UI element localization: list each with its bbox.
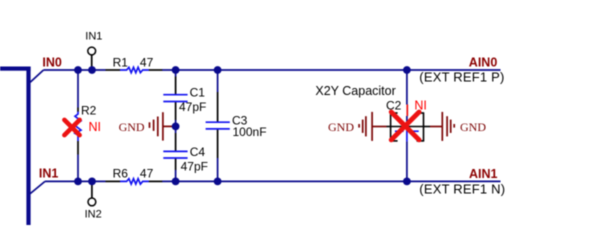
svg-text:GND: GND — [328, 120, 354, 134]
svg-text:GND: GND — [460, 120, 486, 134]
svg-text:IN1: IN1 — [39, 166, 59, 180]
svg-text:R1: R1 — [113, 55, 129, 69]
svg-text:47pF: 47pF — [179, 100, 206, 114]
svg-text:NI: NI — [414, 98, 427, 112]
svg-text:R6: R6 — [113, 167, 129, 181]
svg-text:R2: R2 — [81, 103, 97, 117]
svg-text:(EXT REF1 N): (EXT REF1 N) — [419, 182, 505, 197]
svg-text:NI: NI — [89, 120, 102, 134]
svg-text:47: 47 — [140, 167, 154, 181]
svg-text:47pF: 47pF — [181, 160, 208, 174]
svg-text:C2: C2 — [386, 98, 402, 112]
svg-text:47: 47 — [140, 55, 154, 69]
svg-text:AIN1: AIN1 — [469, 167, 498, 181]
svg-text:C1: C1 — [190, 85, 206, 99]
svg-text:C4: C4 — [190, 145, 206, 159]
svg-text:IN2: IN2 — [85, 209, 102, 221]
svg-text:(EXT REF1 P): (EXT REF1 P) — [419, 69, 504, 84]
svg-text:X2Y Capacitor: X2Y Capacitor — [315, 84, 395, 98]
svg-text:GND: GND — [119, 120, 145, 134]
svg-text:AIN0: AIN0 — [469, 56, 498, 70]
svg-text:IN0: IN0 — [42, 55, 62, 69]
svg-text:100nF: 100nF — [233, 125, 267, 139]
svg-text:IN1: IN1 — [85, 31, 102, 43]
